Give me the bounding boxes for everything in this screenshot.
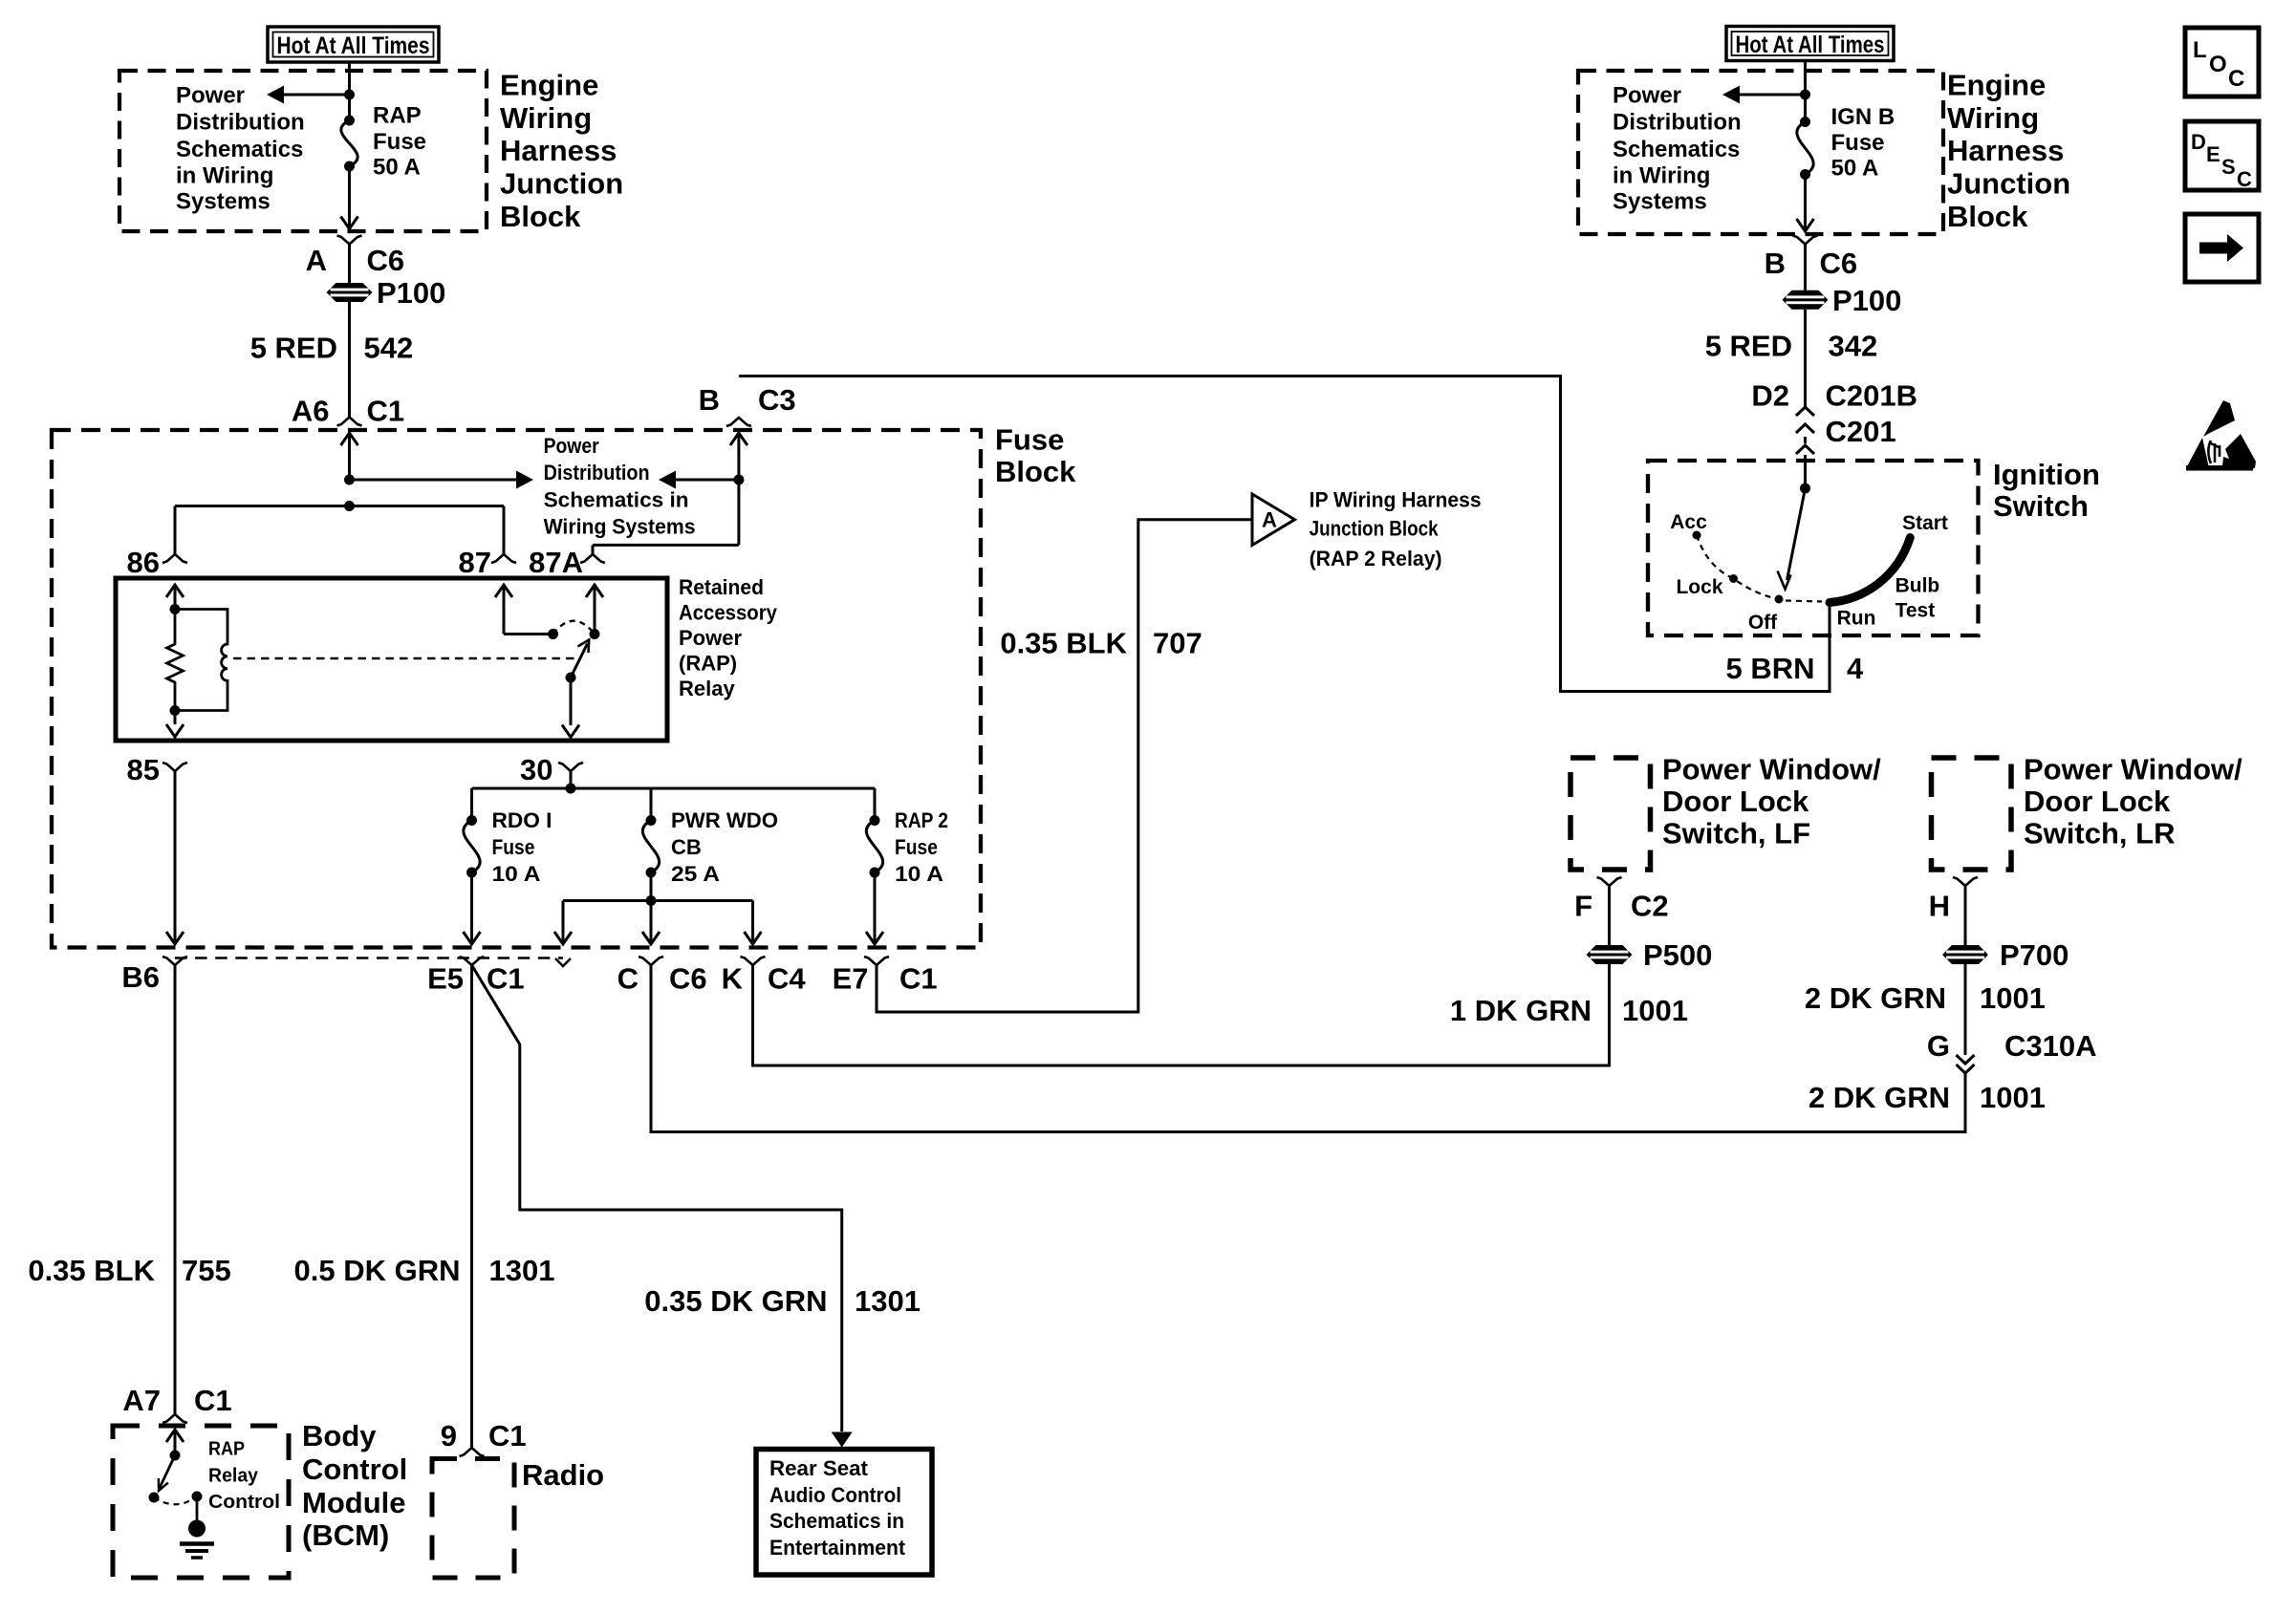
off-page reference triangle A xyxy=(1252,494,1295,546)
connector C3 pin B xyxy=(726,418,751,426)
svg-text:C: C xyxy=(2237,167,2252,191)
svg-text:C1: C1 xyxy=(899,962,938,996)
svg-text:Power Window/: Power Window/ xyxy=(1662,753,1881,786)
wire label 1 DK GRN 1001 xyxy=(1450,994,1688,1027)
svg-text:Audio Control: Audio Control xyxy=(769,1483,901,1507)
svg-text:P500: P500 xyxy=(1643,938,1712,972)
wire: RAP 2 fuse to E7 xyxy=(866,872,883,944)
svg-text:Systems: Systems xyxy=(1613,189,1707,215)
svg-text:C6: C6 xyxy=(367,244,405,277)
connector C1 pin A7 (BCM) xyxy=(162,1414,187,1423)
label Bulb Test xyxy=(1895,575,1940,622)
svg-text:IP Wiring Harness: IP Wiring Harness xyxy=(1310,488,1482,512)
svg-text:Accessory: Accessory xyxy=(679,601,778,625)
wire label 0.35 DK GRN 1301 xyxy=(644,1284,921,1318)
value label: IGN B Fuse 50 A xyxy=(1831,104,1895,182)
svg-text:Fuse: Fuse xyxy=(1831,130,1885,156)
box: Rear Seat Audio Control Schematics in Entertainment xyxy=(756,1450,932,1576)
dashed box: Power Window/Door Lock Switch LF xyxy=(1570,758,1651,870)
junction: CB output split xyxy=(563,895,753,906)
svg-text:86: 86 xyxy=(127,546,160,579)
svg-text:50 A: 50 A xyxy=(373,155,421,181)
svg-text:85: 85 xyxy=(127,753,160,786)
relay pin 86 internal lead xyxy=(166,585,184,610)
BCM node: switch top xyxy=(170,1451,181,1461)
svg-text:Module: Module xyxy=(302,1486,406,1519)
pin label A | C6 xyxy=(306,244,405,277)
svg-text:1001: 1001 xyxy=(1980,1081,2046,1114)
svg-text:25 A: 25 A xyxy=(671,862,720,886)
wire: bus to PWR WDO CB xyxy=(650,788,653,821)
relay pin 85 connector xyxy=(162,763,187,771)
pin label K | C4 xyxy=(722,962,807,996)
svg-text:4: 4 xyxy=(1847,652,1864,685)
svg-text:1301: 1301 xyxy=(489,1254,555,1287)
svg-text:RDO I: RDO I xyxy=(492,808,552,832)
wire: CB branch left pin xyxy=(554,901,572,945)
splice P500 xyxy=(1587,938,1713,972)
label: Retained Accessory Power (RAP) Relay xyxy=(679,575,778,700)
svg-text:RAP: RAP xyxy=(373,103,422,129)
svg-text:Power Window/: Power Window/ xyxy=(2024,753,2242,786)
svg-text:P100: P100 xyxy=(1832,284,1901,317)
connector C1 pin A6 xyxy=(337,418,362,426)
relay contact 87A xyxy=(590,629,600,639)
ignition contact Acc xyxy=(1670,511,1707,540)
relay node: coil/resistor bottom xyxy=(170,705,181,716)
svg-text:H: H xyxy=(1929,890,1950,923)
svg-text:O: O xyxy=(2209,52,2227,77)
relay pin 85 internal lead xyxy=(166,711,184,738)
pin label H xyxy=(1929,890,1950,923)
svg-text:Engine: Engine xyxy=(1947,69,2046,102)
wire label 0.35 BLK 755 xyxy=(28,1254,230,1287)
wire: 5 RED 542 xyxy=(348,302,351,418)
wire: 5 BRN 4 from Run to fuse block B xyxy=(739,377,1830,692)
wire: to relay pin 86 xyxy=(174,506,177,555)
wire label 2 DK GRN 1001 (upper) xyxy=(1805,981,2046,1015)
svg-text:Wiring: Wiring xyxy=(500,101,592,135)
dashed box: Radio xyxy=(432,1459,514,1579)
value label: RDO I Fuse 10 A xyxy=(492,808,552,886)
svg-text:F: F xyxy=(1574,890,1592,923)
wire label 2 DK GRN 1001 (lower) xyxy=(1809,1081,2046,1114)
fuse bus junction xyxy=(472,784,876,794)
wire: C6 to splice P100 (right) xyxy=(1804,245,1807,291)
svg-text:1301: 1301 xyxy=(855,1284,921,1318)
label: Ignition Switch xyxy=(1993,458,2100,523)
arrow to Power Distribution Schematics (left) xyxy=(267,86,350,104)
pin label C | C6 xyxy=(617,962,707,996)
svg-text:Harness: Harness xyxy=(1947,134,2064,167)
pin label 86 xyxy=(127,546,160,579)
pin label 9 | C1 xyxy=(441,1419,527,1453)
relay pin 86 connector xyxy=(162,554,187,563)
ground symbol (BCM RAP relay control) xyxy=(180,1520,214,1559)
wire: branch to relay pins 86 and 87 xyxy=(175,501,504,511)
svg-text:D2: D2 xyxy=(1751,379,1789,413)
wire: 5 RED 342 xyxy=(1804,310,1807,407)
svg-text:Entertainment: Entertainment xyxy=(769,1536,906,1560)
svg-text:Body: Body xyxy=(302,1419,377,1453)
wire label 0.35 BLK 707 xyxy=(1000,627,1202,660)
wire stub between C201 and ignition switch xyxy=(1804,437,1807,443)
BCM contact travel dashed arc xyxy=(154,1496,197,1504)
fuse RDO I Fuse 10 A xyxy=(464,815,480,878)
svg-text:50 A: 50 A xyxy=(1831,156,1879,182)
svg-text:10 A: 10 A xyxy=(895,862,943,886)
svg-text:Wiring: Wiring xyxy=(1947,101,2039,135)
pin label 85 xyxy=(127,753,160,786)
fuse IGN B Fuse 50 A xyxy=(1797,117,1813,180)
svg-text:E5: E5 xyxy=(427,962,464,996)
svg-text:IGN B: IGN B xyxy=(1831,104,1895,130)
svg-text:Retained: Retained xyxy=(679,575,764,599)
svg-text:Fuse: Fuse xyxy=(895,835,938,859)
relay contact 87 xyxy=(548,629,558,639)
wire: 0.5 DK GRN 1301 xyxy=(470,965,473,1448)
svg-text:542: 542 xyxy=(364,332,414,365)
svg-text:Fuse: Fuse xyxy=(373,129,426,155)
svg-text:Door Lock: Door Lock xyxy=(2024,785,2171,818)
svg-text:0.5 DK GRN: 0.5 DK GRN xyxy=(294,1254,461,1287)
BCM ground lead xyxy=(196,1496,199,1521)
wire: 0.35 DK GRN 1301 branch xyxy=(472,965,842,1431)
svg-text:(BCM): (BCM) xyxy=(302,1518,389,1552)
svg-text:Power: Power xyxy=(544,434,599,458)
svg-text:Distribution: Distribution xyxy=(176,110,305,136)
relay node: coil/resistor top xyxy=(170,604,181,614)
svg-text:Fuse: Fuse xyxy=(995,423,1064,457)
svg-text:5 RED: 5 RED xyxy=(250,332,337,365)
svg-text:C2: C2 xyxy=(1631,890,1669,923)
wire: IGN B fuse output to C6 xyxy=(1797,175,1814,232)
value label: RAP Fuse 50 A xyxy=(373,103,426,181)
junction node (A6 feed) xyxy=(344,475,355,485)
svg-text:Start: Start xyxy=(1902,512,1948,534)
svg-text:C4: C4 xyxy=(768,962,806,996)
wire: hot feed into RAP fuse xyxy=(348,62,351,120)
pin label D2 | C201B xyxy=(1751,379,1917,413)
svg-text:Hot At All Times: Hot At All Times xyxy=(1736,32,1885,58)
svg-text:A7: A7 xyxy=(122,1384,161,1417)
pin label 87A xyxy=(529,546,583,579)
pin label A6 | C1 xyxy=(292,395,404,428)
wire label 5 RED 542 xyxy=(250,332,414,365)
svg-text:C3: C3 xyxy=(758,383,796,417)
icon: LOC box xyxy=(2185,28,2259,97)
connector chevron at ignition switch xyxy=(1796,445,1814,454)
svg-text:Systems: Systems xyxy=(176,189,271,215)
BCM contact left xyxy=(149,1493,160,1503)
svg-text:RAP: RAP xyxy=(208,1439,245,1460)
svg-text:P100: P100 xyxy=(377,276,445,310)
label: Engine Wiring Harness Junction Block (right) xyxy=(1947,69,2070,233)
relay switch blade (armature) xyxy=(571,640,589,678)
svg-text:Control: Control xyxy=(208,1492,280,1513)
svg-text:in Wiring: in Wiring xyxy=(176,163,273,189)
pin label G | C310A xyxy=(1927,1029,2097,1063)
svg-text:B: B xyxy=(1765,247,1786,280)
connector C6 pin A xyxy=(337,236,362,245)
svg-text:10 A: 10 A xyxy=(492,862,541,886)
svg-text:Engine: Engine xyxy=(500,69,598,102)
svg-text:D: D xyxy=(2191,130,2206,154)
connector C1 pin E5 xyxy=(460,957,485,965)
connector pin H xyxy=(1953,877,1978,886)
wire label 5 RED 342 xyxy=(1705,330,1878,363)
pin label B | C6 xyxy=(1765,247,1858,280)
connector C1 pin E7 xyxy=(864,957,889,965)
wire: 2 DK GRN 1001 upper xyxy=(1964,964,1967,1055)
wire: RDO I fuse to E5 xyxy=(464,872,481,944)
svg-text:in Wiring: in Wiring xyxy=(1613,163,1710,189)
relay actuation dashed link xyxy=(233,657,576,660)
connector C201B/C201 pass-through chevrons xyxy=(1796,407,1814,433)
svg-text:342: 342 xyxy=(1829,330,1878,363)
svg-text:C1: C1 xyxy=(367,395,405,428)
fuse RAP 2 Fuse 10 A xyxy=(866,815,882,878)
svg-text:C201: C201 xyxy=(1826,415,1896,448)
icon: ESD static sensitive symbol xyxy=(2186,400,2256,471)
svg-text:Power: Power xyxy=(1613,83,1681,109)
svg-text:Rear Seat: Rear Seat xyxy=(769,1456,869,1480)
BCM switch blade xyxy=(159,1455,175,1491)
wire: A6 entry into fuse block xyxy=(341,433,358,480)
svg-text:0.35 BLK: 0.35 BLK xyxy=(28,1254,155,1287)
power label: Hot At All Times (right) xyxy=(1726,27,1894,61)
svg-text:S: S xyxy=(2221,155,2236,179)
label Start xyxy=(1902,512,1948,534)
wire label 0.5 DK GRN 1301 xyxy=(294,1254,555,1287)
relay pin 87 connector xyxy=(491,554,516,563)
label: Radio xyxy=(522,1458,604,1492)
svg-text:CB: CB xyxy=(671,835,702,859)
connector C1 unused pin stub xyxy=(555,958,571,966)
svg-text:C1: C1 xyxy=(487,962,525,996)
svg-text:Relay: Relay xyxy=(679,677,735,700)
dashed box: Fuse Block xyxy=(52,430,981,948)
svg-text:Block: Block xyxy=(500,200,581,233)
icon: forward arrow box xyxy=(2185,214,2259,282)
pin label F | C2 xyxy=(1574,890,1669,923)
arrow to Power Distribution Schematics (fuse block) xyxy=(350,471,534,489)
connector C1 dashed boundary xyxy=(175,957,563,958)
svg-text:Power: Power xyxy=(176,83,245,109)
label: Body Control Module (BCM) xyxy=(302,1419,407,1552)
svg-text:P700: P700 xyxy=(2000,938,2069,972)
dashed box: Engine Wiring Harness Junction Block (right) xyxy=(1578,71,1943,234)
ignition switch wiper arrow xyxy=(1778,488,1806,590)
svg-text:87: 87 xyxy=(459,546,491,579)
label: Fuse Block xyxy=(995,423,1076,489)
svg-text:C6: C6 xyxy=(669,962,707,996)
svg-text:C: C xyxy=(617,962,639,996)
svg-text:C6: C6 xyxy=(1820,247,1858,280)
BCM contact right (to ground) xyxy=(192,1492,203,1502)
svg-text:5 RED: 5 RED xyxy=(1705,330,1792,363)
svg-text:Lock: Lock xyxy=(1676,576,1722,598)
connector label C201 xyxy=(1826,415,1896,448)
junction on IGN B fuse feed xyxy=(1800,90,1810,100)
svg-text:Run: Run xyxy=(1837,608,1876,630)
svg-text:C201B: C201B xyxy=(1826,379,1918,413)
label: Power Window/Door Lock Switch, LF xyxy=(1662,753,1881,850)
svg-text:E: E xyxy=(2206,142,2220,166)
svg-text:5 BRN: 5 BRN xyxy=(1725,652,1814,685)
power label: Hot At All Times (left) xyxy=(268,27,439,62)
svg-text:Off: Off xyxy=(1748,612,1778,634)
label: Power Window/Door Lock Switch, LR xyxy=(2024,753,2242,850)
svg-text:Distribution: Distribution xyxy=(544,461,650,484)
wire: CB branch to C xyxy=(642,901,660,945)
ignition Run-Start thick contact arc xyxy=(1830,538,1910,603)
svg-text:Hot At All Times: Hot At All Times xyxy=(277,32,430,59)
relay pin 30 connector xyxy=(558,763,583,771)
fuse RAP Fuse 50 A xyxy=(341,116,357,172)
svg-text:Junction: Junction xyxy=(500,167,623,201)
relay pin 87A internal lead xyxy=(586,585,603,635)
relay pin 87 internal lead xyxy=(495,585,553,635)
arrow into Rear Seat Audio Control xyxy=(832,1432,853,1448)
pin label E5 | C1 xyxy=(427,962,525,996)
svg-text:C1: C1 xyxy=(488,1419,527,1453)
svg-text:Block: Block xyxy=(1947,200,2028,233)
svg-text:0.35 BLK: 0.35 BLK xyxy=(1000,627,1127,660)
BCM internal lead RAP Relay Control xyxy=(166,1430,184,1455)
svg-text:C1: C1 xyxy=(194,1384,232,1417)
junction on RAP fuse feed xyxy=(344,90,355,100)
relay node: common pivot xyxy=(566,673,576,683)
svg-text:Schematics in: Schematics in xyxy=(544,488,689,512)
wire: H to splice P700 xyxy=(1964,886,1967,945)
connector C6 pin C xyxy=(639,957,663,965)
svg-text:Schematics in: Schematics in xyxy=(769,1509,904,1533)
svg-text:Harness: Harness xyxy=(500,134,617,167)
dashed box: Ignition Switch xyxy=(1648,461,1979,635)
svg-text:Radio: Radio xyxy=(522,1458,604,1492)
svg-text:B6: B6 xyxy=(121,960,160,994)
wire: jog to relay pin 87A xyxy=(593,545,739,554)
svg-text:707: 707 xyxy=(1153,627,1202,660)
wire: F to splice P500 xyxy=(1608,886,1611,945)
wire: hot feed into IGN B fuse xyxy=(1804,61,1807,122)
wire: bus to RAP 2 fuse xyxy=(874,788,877,821)
svg-text:9: 9 xyxy=(441,1419,457,1453)
svg-text:Distribution: Distribution xyxy=(1613,110,1742,136)
arrow from B/C3 feed to Power Distribution Schematics xyxy=(659,471,739,489)
svg-text:2 DK GRN: 2 DK GRN xyxy=(1809,1081,1950,1114)
svg-text:K: K xyxy=(722,962,744,996)
wire: 2 DK GRN 1001 run to C310A xyxy=(651,965,1965,1132)
label: RAP Relay Control xyxy=(208,1439,280,1514)
svg-text:Block: Block xyxy=(995,455,1076,488)
svg-text:Bulb: Bulb xyxy=(1895,575,1940,597)
dashed box: Power Window/Door Lock Switch LR xyxy=(1932,758,2012,870)
svg-text:Acc: Acc xyxy=(1670,511,1707,533)
svg-text:C: C xyxy=(2228,66,2244,92)
wire: CB branch to K xyxy=(745,901,762,945)
wire: C6 to splice P100 (left) xyxy=(348,245,351,284)
wire: pin 30 to fuse bus xyxy=(570,771,573,788)
splice P100 (right) xyxy=(1783,284,1902,317)
svg-text:87A: 87A xyxy=(529,546,583,579)
wire: 0.35 BLK 755 xyxy=(174,965,177,1414)
svg-text:E7: E7 xyxy=(833,962,869,996)
value label: RAP 2 Fuse 10 A xyxy=(895,808,948,886)
svg-text:B: B xyxy=(699,383,720,417)
label: Rear Seat Audio Control Schematics in Entertainment xyxy=(769,1456,906,1560)
wire: bus to RDO I fuse xyxy=(470,788,473,821)
resistor (relay suppression resistor) xyxy=(167,610,184,711)
svg-text:Wiring Systems: Wiring Systems xyxy=(544,515,696,539)
connector C2 pin F xyxy=(1597,877,1622,886)
pin label A7 | C1 xyxy=(122,1384,231,1417)
svg-text:Fuse: Fuse xyxy=(492,835,535,859)
connector C4 pin K xyxy=(741,957,766,965)
connector C1 pin 9 (Radio) xyxy=(460,1448,485,1456)
svg-text:Relay: Relay xyxy=(208,1466,259,1487)
svg-text:30: 30 xyxy=(520,753,552,786)
dashed box: Body Control Module (BCM) xyxy=(113,1426,289,1578)
svg-text:Control: Control xyxy=(302,1453,407,1486)
ignition detent dashed arc xyxy=(1697,535,1822,602)
svg-text:RAP 2: RAP 2 xyxy=(895,808,948,832)
svg-text:2 DK GRN: 2 DK GRN xyxy=(1805,981,1946,1015)
ignition contact Lock xyxy=(1676,574,1738,598)
wire into ignition switch xyxy=(1804,455,1807,488)
splice P100 (left) xyxy=(327,276,446,310)
svg-text:1001: 1001 xyxy=(1622,994,1688,1027)
label: IP Wiring Harness Junction Block (RAP 2 Relay) xyxy=(1310,488,1482,571)
wire: pin 85 to B6 xyxy=(166,771,184,944)
pin label E7 | C1 xyxy=(833,962,938,996)
connector C6 pin B xyxy=(1793,236,1818,245)
wire label 5 BRN 4 xyxy=(1725,652,1864,685)
pin label 30 xyxy=(520,753,552,786)
svg-text:Junction: Junction xyxy=(1947,167,2070,201)
svg-text:G: G xyxy=(1927,1029,1950,1063)
svg-text:Switch: Switch xyxy=(1993,489,2089,523)
svg-text:Door Lock: Door Lock xyxy=(1662,785,1809,818)
svg-text:Switch, LF: Switch, LF xyxy=(1662,817,1810,850)
svg-text:(RAP 2 Relay): (RAP 2 Relay) xyxy=(1310,547,1442,570)
wire: to relay pin 87 xyxy=(503,506,506,555)
pin label B6 xyxy=(121,960,160,994)
svg-text:1001: 1001 xyxy=(1980,981,2046,1015)
splice P700 xyxy=(1942,938,2069,972)
svg-text:Schematics: Schematics xyxy=(176,137,303,162)
ignition contact Off xyxy=(1748,595,1784,635)
svg-text:755: 755 xyxy=(182,1254,231,1287)
label: Power Distribution Schematics in Wiring Systems (right junction block) xyxy=(1613,83,1742,215)
svg-text:C310A: C310A xyxy=(2004,1029,2097,1063)
svg-text:A: A xyxy=(306,244,327,277)
relay coil xyxy=(175,610,227,711)
ignition switch wiper pivot xyxy=(1800,484,1810,494)
svg-text:L: L xyxy=(2193,37,2207,63)
svg-text:0.35 DK GRN: 0.35 DK GRN xyxy=(644,1284,827,1318)
svg-text:Schematics: Schematics xyxy=(1613,137,1740,162)
icon: DESC box xyxy=(2185,121,2259,191)
wire: 1 DK GRN 1001 run to P500 xyxy=(753,964,1610,1065)
connector C1 pin B6 xyxy=(162,957,187,965)
pin label B | C3 xyxy=(699,383,796,417)
svg-text:Junction Block: Junction Block xyxy=(1310,517,1440,541)
label: Power Distribution Schematics in Wiring Systems (left junction block) xyxy=(176,83,305,215)
circuit breaker PWR WDO CB 25 A xyxy=(642,815,659,878)
svg-text:PWR WDO: PWR WDO xyxy=(671,808,778,832)
